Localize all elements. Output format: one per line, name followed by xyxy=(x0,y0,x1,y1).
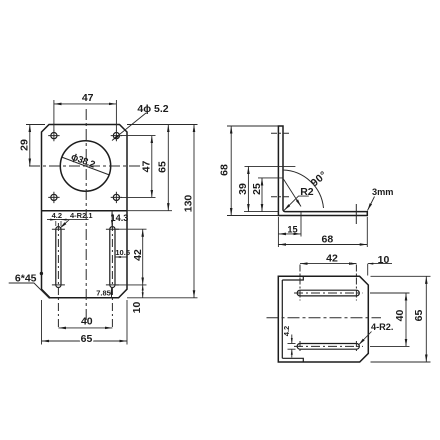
dim 40 bottom view xyxy=(405,293,407,346)
lip inner line xyxy=(281,280,283,358)
hole tick top xyxy=(271,132,290,134)
slot left xyxy=(56,227,61,288)
hole top-left xyxy=(51,133,57,139)
horizontal centerline circle xyxy=(29,165,140,167)
svg-text:68: 68 xyxy=(322,234,334,246)
svg-text:25: 25 xyxy=(251,183,263,195)
leader R2 xyxy=(284,196,309,210)
hole bottom-left xyxy=(51,194,57,200)
main centerline bottom view xyxy=(267,317,382,319)
leader dot xyxy=(40,272,43,275)
svg-text:10: 10 xyxy=(131,302,143,314)
dim 10 front xyxy=(142,285,144,298)
svg-text:130: 130 xyxy=(183,195,195,213)
leader 4-R2. xyxy=(359,332,372,346)
svg-text:3mm: 3mm xyxy=(372,187,393,197)
cap centerline left xyxy=(299,265,301,301)
dim 40 bottom xyxy=(58,327,112,329)
svg-text:42: 42 xyxy=(326,253,338,265)
slot centerlines xyxy=(57,223,59,330)
svg-text:40: 40 xyxy=(394,310,406,322)
vertical centerline xyxy=(85,109,87,320)
svg-text:14.3: 14.3 xyxy=(111,213,129,223)
dim 65 right xyxy=(167,125,169,211)
slot right xyxy=(110,227,115,288)
svg-text:10.5: 10.5 xyxy=(115,248,130,257)
leader 4-R2.1 xyxy=(60,220,69,229)
dim 29 xyxy=(29,125,31,167)
svg-text:47: 47 xyxy=(141,161,153,173)
bend line xyxy=(42,210,128,212)
90 deg arc xyxy=(283,170,324,208)
slot bottom (bottom view) xyxy=(297,344,359,350)
dim 25 xyxy=(261,178,263,212)
hole bottom-right xyxy=(113,194,119,200)
svg-text:7.85: 7.85 xyxy=(96,289,111,298)
hole cross ticks xyxy=(48,130,122,203)
pilot circle phi38.2 xyxy=(60,141,110,191)
slot cap ticks xyxy=(52,229,119,285)
svg-text:65: 65 xyxy=(413,310,425,322)
svg-text:4.2: 4.2 xyxy=(282,326,291,336)
svg-text:47: 47 xyxy=(82,92,94,104)
svg-text:4-R2.: 4-R2. xyxy=(371,322,393,332)
leader 3mm xyxy=(368,197,375,211)
dim 7.85 xyxy=(111,288,113,298)
dim 65 bottom view xyxy=(425,276,427,362)
front view outline xyxy=(42,125,128,298)
lip step top xyxy=(282,276,303,280)
dim 68 bottom xyxy=(278,244,367,246)
cap centerline right xyxy=(355,265,357,301)
dim 15 xyxy=(278,233,301,235)
diameter line xyxy=(62,157,109,175)
dim 65 bottom xyxy=(42,340,128,342)
dim 10 bottom view xyxy=(350,263,357,265)
hole tick bottom xyxy=(271,196,290,198)
svg-text:4ɸ 5.2: 4ɸ 5.2 xyxy=(137,103,168,115)
slot centerline bottom xyxy=(294,345,363,347)
svg-text:68: 68 xyxy=(219,164,231,176)
L profile xyxy=(278,126,367,216)
svg-text:39: 39 xyxy=(237,183,249,195)
dim 4.2 front xyxy=(47,219,89,221)
slot centerline top xyxy=(294,292,363,294)
bottom view outline xyxy=(278,276,368,362)
svg-text:R2: R2 xyxy=(300,186,314,198)
svg-text:29: 29 xyxy=(19,139,31,151)
svg-text:4.2: 4.2 xyxy=(52,211,62,220)
svg-text:4-R2.1: 4-R2.1 xyxy=(70,211,93,220)
svg-text:15: 15 xyxy=(287,224,297,234)
dim 4.2 bottom view xyxy=(291,335,293,344)
dim 42 bottom view xyxy=(300,263,356,265)
dim 130 xyxy=(193,125,195,298)
slot top (bottom view) xyxy=(297,290,359,296)
slot tick base xyxy=(355,204,357,224)
dim 47 top xyxy=(54,103,117,105)
svg-text:6*45: 6*45 xyxy=(15,272,37,284)
svg-text:65: 65 xyxy=(157,161,169,173)
svg-text:40: 40 xyxy=(81,316,93,328)
leader 6x45 xyxy=(9,283,50,299)
svg-text:42: 42 xyxy=(132,249,144,261)
svg-text:65: 65 xyxy=(81,333,93,345)
svg-text:ɸ38.2: ɸ38.2 xyxy=(69,151,96,170)
bend reference line xyxy=(284,179,302,206)
svg-text:10: 10 xyxy=(378,254,390,266)
dim 39 xyxy=(247,166,249,211)
hole top-right xyxy=(113,133,119,139)
dim 47 right xyxy=(151,136,153,198)
dim 10.5 xyxy=(115,256,126,258)
dim 14.3 xyxy=(111,211,113,227)
dim 42 front xyxy=(142,229,144,285)
leader 4phi5.2 xyxy=(112,113,146,141)
lip step bottom xyxy=(282,358,303,362)
dim 68 left xyxy=(230,126,232,216)
